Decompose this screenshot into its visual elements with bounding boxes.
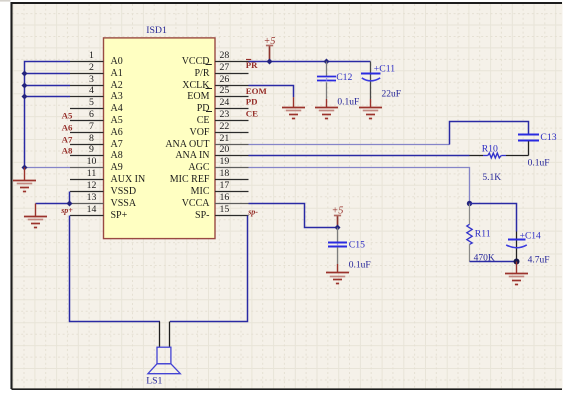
pin 15 (SP-) stub + number + name xyxy=(195,204,248,221)
svg-text:A2: A2 xyxy=(111,80,123,91)
net label CE xyxy=(246,108,258,118)
pin 22 (VOF) stub + number + name xyxy=(189,121,248,138)
svg-text:A6: A6 xyxy=(62,122,73,132)
svg-text:23: 23 xyxy=(220,109,230,120)
svg-text:1: 1 xyxy=(89,50,94,61)
wire pin13 VSSA left to ground xyxy=(36,203,70,205)
pin 9 (A8) stub + number + name xyxy=(70,144,123,161)
svg-text:MIC: MIC xyxy=(191,186,210,197)
svg-text:A5: A5 xyxy=(62,110,73,120)
svg-text:SP-: SP- xyxy=(195,210,209,221)
svg-text:0.1uF: 0.1uF xyxy=(528,159,550,169)
wire pin1 A0 to bus xyxy=(25,62,71,168)
svg-text:EOM: EOM xyxy=(246,86,268,96)
pin 20 (ANA IN) stub + number + name xyxy=(175,144,248,161)
ground stem (XCLK) xyxy=(293,97,295,107)
net label sp+ xyxy=(60,206,73,215)
pin 4 (A3) stub + number + name xyxy=(70,85,123,102)
pin 17 (MIC) stub + number + name xyxy=(191,180,249,197)
pin 25 (EOM) stub + number + name xyxy=(187,85,248,102)
svg-text:5: 5 xyxy=(89,97,94,108)
net label A8 xyxy=(62,145,73,155)
svg-text:A9: A9 xyxy=(111,162,123,173)
wire pin12 VSSD down to pin13 xyxy=(69,192,71,204)
svg-text:18: 18 xyxy=(220,168,230,179)
junction C12/rail xyxy=(324,59,330,65)
svg-text:A8: A8 xyxy=(62,145,73,155)
value 0.1uF (C13) xyxy=(528,159,550,169)
designator C15 xyxy=(349,239,365,250)
svg-text:R11: R11 xyxy=(475,228,491,239)
svg-text:4.7uF: 4.7uF xyxy=(528,255,550,265)
svg-text:A7: A7 xyxy=(62,134,73,144)
pin 21 (ANA OUT) stub + number + name xyxy=(165,133,248,150)
svg-text:22: 22 xyxy=(220,121,230,132)
value 4.7uF (C14) xyxy=(528,255,550,265)
pin 7 (A6) stub + number + name xyxy=(70,121,123,138)
designator R11 xyxy=(475,228,491,239)
pin 19 (AGC) stub + number + name xyxy=(188,156,248,173)
net label sp- xyxy=(247,208,258,217)
svg-text:+C11: +C11 xyxy=(374,63,395,74)
svg-text:26: 26 xyxy=(220,74,230,85)
ground GND (C14) xyxy=(505,274,528,285)
svg-text:7: 7 xyxy=(89,121,94,132)
junction bus/pin2 xyxy=(22,71,28,77)
svg-text:PD: PD xyxy=(197,103,210,114)
net label EOM xyxy=(246,86,268,96)
wire VCCD pin28 rail xyxy=(249,61,371,63)
ground stem (VSS) xyxy=(35,204,37,217)
svg-text:28: 28 xyxy=(220,50,230,61)
resistor R11 xyxy=(467,204,472,262)
pin name overbar marks (VCCD/XCLK/PD rows) xyxy=(206,65,213,112)
svg-text:22uF: 22uF xyxy=(382,90,402,100)
svg-text:2: 2 xyxy=(89,62,94,73)
junction VCCA node xyxy=(335,225,341,231)
svg-text:A5: A5 xyxy=(111,115,123,126)
junction bus/pin10 xyxy=(22,165,28,171)
junction AGC node xyxy=(467,201,472,206)
ground GND (address bus) xyxy=(13,181,36,192)
svg-text:PD: PD xyxy=(246,97,258,107)
net label A7 xyxy=(62,134,73,144)
wire pin2 A1 to bus xyxy=(25,73,71,75)
wire ANA OUT riser to C13 top xyxy=(450,122,529,145)
svg-text:CE: CE xyxy=(197,115,210,126)
IC U ISD1 body xyxy=(104,38,216,239)
svg-text:AGC: AGC xyxy=(188,162,209,173)
designator R10 xyxy=(482,143,498,154)
junction pin13/VSS xyxy=(67,201,73,207)
speaker designator LS1 xyxy=(146,375,162,386)
value 470K (R11) xyxy=(474,254,495,264)
ground GND (VSS) xyxy=(24,217,47,228)
svg-text:VCCA: VCCA xyxy=(182,198,211,209)
designator +C14 xyxy=(520,231,541,241)
pin 14 (SP+) stub + number + name xyxy=(70,204,128,221)
svg-text:P/R: P/R xyxy=(194,68,209,79)
svg-text:C12: C12 xyxy=(336,72,352,83)
svg-text:3: 3 xyxy=(89,74,94,85)
pin 11 (AUX IN) stub + number + name xyxy=(70,168,145,185)
IC designator label ISD1 xyxy=(146,25,167,36)
svg-text:VCCD: VCCD xyxy=(182,56,210,67)
svg-text:5.1K: 5.1K xyxy=(482,173,501,183)
svg-text:+C14: +C14 xyxy=(520,231,541,241)
svg-text:14: 14 xyxy=(87,204,97,215)
ground stem (C14) xyxy=(516,262,518,274)
pin 28 (VCCD) stub + number + name xyxy=(182,50,249,67)
svg-text:sp-: sp- xyxy=(247,208,258,217)
svg-text:A8: A8 xyxy=(111,150,123,161)
svg-text:9: 9 xyxy=(89,144,94,155)
capacitor C11 (polarized) xyxy=(361,62,381,108)
pin 1 (A0) stub + number + name xyxy=(70,50,123,67)
capacitor C13 xyxy=(518,135,539,156)
designator C12 xyxy=(336,72,352,83)
wire pin4 A3 to bus xyxy=(25,96,71,98)
svg-text:SP+: SP+ xyxy=(111,210,128,221)
svg-text:11: 11 xyxy=(87,168,97,179)
ground GND (C12) xyxy=(315,108,338,119)
svg-text:0.1uF: 0.1uF xyxy=(337,97,359,107)
svg-text:AUX IN: AUX IN xyxy=(111,174,146,185)
svg-text:10: 10 xyxy=(87,156,97,167)
svg-text:XCLK: XCLK xyxy=(182,80,210,91)
svg-text:sp+: sp+ xyxy=(60,206,73,215)
svg-text:VSSA: VSSA xyxy=(111,198,137,209)
pin 8 (A7) stub + number + name xyxy=(70,133,123,150)
wire pin10 A9 to bus xyxy=(25,167,71,169)
svg-text:ANA OUT: ANA OUT xyxy=(165,139,209,150)
svg-text:CE: CE xyxy=(246,108,258,118)
wire XCLK pin26 to ground xyxy=(249,86,294,98)
pin 10 (A9) stub + number + name xyxy=(70,156,123,173)
svg-text:A6: A6 xyxy=(111,127,123,138)
svg-text:VOF: VOF xyxy=(189,127,209,138)
power +5 (VCCA) xyxy=(332,206,344,228)
svg-text:24: 24 xyxy=(220,97,230,108)
svg-text:20: 20 xyxy=(220,144,230,155)
svg-text:R10: R10 xyxy=(482,143,498,154)
designator +C11 xyxy=(374,63,395,74)
svg-text:+5: +5 xyxy=(264,36,276,47)
wire ANA IN pin20 xyxy=(249,155,470,157)
net label PD xyxy=(246,97,258,107)
ground GND (C11) xyxy=(359,108,382,119)
junction C14/ground xyxy=(514,259,520,265)
junction bus/pin4 xyxy=(22,94,28,100)
wire VCCA pin16 to +5/C15 xyxy=(249,204,338,228)
svg-text:0.1uF: 0.1uF xyxy=(349,261,371,271)
svg-text:17: 17 xyxy=(220,180,230,191)
svg-text:C15: C15 xyxy=(349,239,365,250)
svg-text:EOM: EOM xyxy=(187,91,209,102)
net label PR (overbar) xyxy=(246,60,258,71)
wire SP+ pin14 down and right to speaker xyxy=(70,216,161,322)
ground GND (C15) xyxy=(326,273,349,284)
power +5 (VCCD) xyxy=(264,36,276,62)
pin 5 (A4) stub + number + name xyxy=(70,97,123,114)
speaker LS1 xyxy=(148,322,180,374)
svg-text:21: 21 xyxy=(220,133,230,144)
junction +5/rail xyxy=(267,59,273,65)
svg-text:A3: A3 xyxy=(111,91,123,102)
svg-text:PR: PR xyxy=(246,60,258,70)
svg-text:+5: +5 xyxy=(332,206,344,217)
svg-text:12: 12 xyxy=(87,180,97,191)
wire AGC pin19 xyxy=(249,168,470,204)
pin 24 (PD) stub + number + name xyxy=(197,97,249,114)
ground GND (XCLK) xyxy=(282,108,305,119)
svg-text:25: 25 xyxy=(220,85,230,96)
wire R11 bottom to C14 bottom xyxy=(470,261,517,263)
junction bus/pin3 xyxy=(22,83,28,89)
value 0.1uF (C12) xyxy=(337,97,359,107)
net label A5 xyxy=(62,110,73,120)
designator C13 xyxy=(540,132,556,143)
pin 27 (P/R) stub + number + name xyxy=(194,62,248,79)
svg-text:A0: A0 xyxy=(111,56,123,67)
svg-text:13: 13 xyxy=(87,192,97,203)
svg-text:ANA IN: ANA IN xyxy=(175,150,209,161)
svg-text:4: 4 xyxy=(89,85,94,96)
pin 2 (A1) stub + number + name xyxy=(70,62,123,79)
pin 12 (VSSD) stub + number + name xyxy=(70,180,136,197)
svg-text:A7: A7 xyxy=(111,139,123,150)
svg-text:19: 19 xyxy=(220,156,230,167)
capacitor C15 xyxy=(328,228,347,274)
svg-text:15: 15 xyxy=(220,204,230,215)
pin 6 (A5) stub + number + name xyxy=(70,109,123,126)
svg-text:6: 6 xyxy=(89,109,94,120)
pin 3 (A2) stub + number + name xyxy=(70,74,123,91)
value 0.1uF (C15) xyxy=(349,261,371,271)
svg-text:VSSD: VSSD xyxy=(111,186,137,197)
svg-text:A4: A4 xyxy=(111,103,123,114)
wire ANA OUT pin21 xyxy=(249,144,450,146)
wire SP- pin15 down and left to speaker xyxy=(170,216,248,322)
wire AGC node to C14 top xyxy=(470,204,517,232)
svg-text:ISD1: ISD1 xyxy=(146,25,167,36)
svg-text:A1: A1 xyxy=(111,68,123,79)
svg-text:8: 8 xyxy=(89,133,94,144)
svg-text:MIC REF: MIC REF xyxy=(170,174,210,185)
ground stem (address bus) xyxy=(24,168,26,181)
resistor R10 xyxy=(470,153,529,158)
value 22uF (C11) xyxy=(382,90,402,100)
pin 13 (VSSA) stub + number + name xyxy=(70,192,137,209)
svg-text:LS1: LS1 xyxy=(146,375,162,386)
pin 23 (CE) stub + number + name xyxy=(197,109,249,126)
svg-text:27: 27 xyxy=(220,62,230,73)
pin 18 (MIC REF) stub + number + name xyxy=(170,168,249,185)
capacitor C14 (polarized) xyxy=(506,232,527,262)
pin 16 (VCCA) stub + number + name xyxy=(182,192,249,209)
value 5.1K (R10) xyxy=(482,173,501,183)
svg-text:16: 16 xyxy=(220,192,230,203)
capacitor C12 xyxy=(317,62,336,108)
wire pin3 A2 to bus xyxy=(25,85,71,87)
pin 26 (XCLK) stub + number + name xyxy=(182,74,248,91)
net label A6 xyxy=(62,122,73,132)
svg-text:C13: C13 xyxy=(540,132,556,143)
